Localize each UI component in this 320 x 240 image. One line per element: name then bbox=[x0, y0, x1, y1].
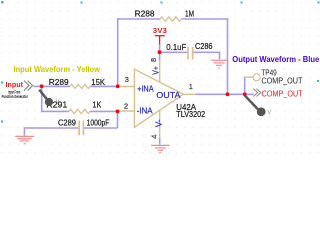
wire feedback top horizontal left segment bbox=[118, 18, 160, 20]
junction dot 3V3 node bbox=[158, 50, 162, 54]
wire TP49 vertical bbox=[244, 77, 246, 95]
svg-text:Output Waveform - Blue: Output Waveform - Blue bbox=[232, 54, 319, 64]
svg-text:Input Waveform - Yellow: Input Waveform - Yellow bbox=[14, 64, 101, 74]
wire C286 row right bbox=[193, 51, 220, 53]
svg-text:TLV3202: TLV3202 bbox=[176, 109, 205, 119]
svg-text:8: 8 bbox=[149, 58, 158, 62]
wire output row bbox=[196, 93, 254, 95]
ground GND left bbox=[15, 136, 34, 143]
test point TP49 circle bbox=[253, 74, 260, 81]
wire C289 vertical bbox=[117, 111, 119, 128]
svg-text:R288: R288 bbox=[135, 8, 155, 18]
svg-text:C289: C289 bbox=[58, 118, 76, 128]
svg-text:2: 2 bbox=[124, 101, 128, 110]
capacitor C286 bbox=[188, 47, 193, 60]
svg-text:15K: 15K bbox=[91, 77, 105, 87]
junction dot +INA node bbox=[116, 84, 120, 88]
test point TP49 pin bbox=[244, 76, 253, 78]
svg-text:3: 3 bbox=[125, 75, 129, 84]
svg-text:Input: Input bbox=[6, 80, 24, 89]
wire input branch vertical bbox=[41, 86, 43, 111]
svg-text:V+: V+ bbox=[151, 66, 160, 75]
resistor R288 bbox=[160, 17, 181, 21]
svg-text:1000pF: 1000pF bbox=[87, 118, 110, 128]
ground GND C286 bbox=[211, 60, 227, 68]
svg-text:1: 1 bbox=[189, 82, 193, 91]
junction dot output TP bbox=[243, 92, 247, 96]
probe V input bbox=[39, 90, 60, 106]
pin 2 stub bbox=[118, 110, 135, 112]
port COMP_OUT chevrons bbox=[253, 89, 260, 97]
ground GND op-amp bbox=[151, 145, 169, 152]
wire feedback top horizontal right segment bbox=[181, 18, 228, 20]
junction dot output feedback bbox=[226, 92, 230, 96]
wire C289 row right bbox=[83, 127, 117, 129]
wire C286 ground drop bbox=[219, 52, 221, 60]
svg-text:OUTA: OUTA bbox=[156, 91, 181, 100]
wire ground drop left bbox=[23, 127, 25, 136]
junction dot input branch bbox=[40, 84, 44, 88]
wire row2 left bbox=[41, 110, 69, 112]
wire row2 right bbox=[90, 110, 118, 112]
wire pin4 to ground bbox=[159, 138, 161, 145]
wire feedback left vertical bbox=[117, 18, 119, 86]
wire C286 row bbox=[160, 51, 188, 53]
wire row1 to junction bbox=[90, 85, 118, 87]
svg-text:Function Generator: Function Generator bbox=[2, 94, 28, 100]
pin 3 stub bbox=[118, 85, 135, 87]
svg-text:1M: 1M bbox=[185, 8, 194, 18]
svg-text:COMP_OUT: COMP_OUT bbox=[261, 76, 302, 85]
junction dot -INA node bbox=[116, 110, 120, 114]
capacitor C289 bbox=[79, 121, 83, 136]
svg-text:+INA: +INA bbox=[137, 85, 154, 94]
pin 4 stub bbox=[159, 109, 161, 138]
resistor R291 bbox=[69, 109, 90, 113]
wire input row1 bbox=[34, 85, 71, 87]
probe V output bbox=[245, 96, 272, 117]
svg-text:4: 4 bbox=[150, 135, 159, 139]
svg-text:0.1uF: 0.1uF bbox=[166, 42, 186, 52]
svg-text:-INA: -INA bbox=[137, 106, 154, 115]
pin 8 stub bbox=[159, 60, 161, 82]
svg-text:3V3: 3V3 bbox=[153, 26, 167, 35]
wire 3V3 to node bbox=[159, 45, 161, 61]
pin 1 stub bbox=[184, 93, 197, 95]
wire C289 row left bbox=[24, 127, 79, 129]
op-amp U42A triangle bbox=[134, 69, 183, 127]
svg-text:1K: 1K bbox=[93, 99, 102, 109]
svg-text:COMP_OUT: COMP_OUT bbox=[262, 90, 303, 99]
svg-text:V-: V- bbox=[154, 119, 163, 127]
svg-text:C286: C286 bbox=[195, 41, 213, 51]
wire output right vertical bbox=[227, 18, 229, 94]
resistor R289 bbox=[70, 84, 90, 88]
power 3V3 symbol bbox=[155, 36, 165, 46]
port Input chevrons bbox=[24, 81, 33, 91]
svg-text:R289: R289 bbox=[49, 77, 69, 87]
